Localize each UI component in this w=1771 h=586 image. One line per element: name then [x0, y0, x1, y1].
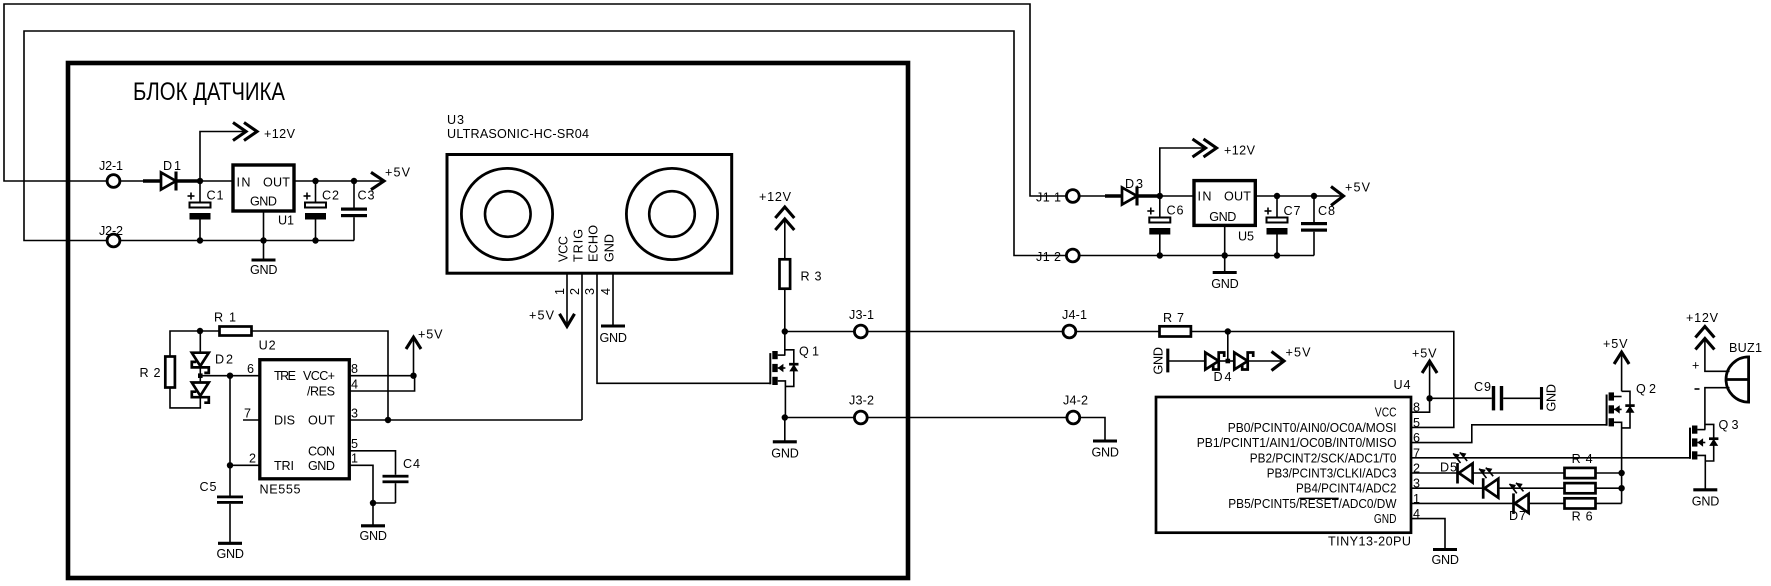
- node junction C1 bottom: [197, 237, 203, 243]
- node junction C2 bottom: [312, 237, 318, 243]
- diode D4 dual schottky: [1205, 353, 1253, 385]
- svg-text:4: 4: [351, 378, 358, 392]
- wire U1 GND pin: [263, 211, 265, 260]
- transducer right outer: [626, 168, 717, 259]
- wire PB3 to D5: [1411, 472, 1458, 474]
- node junction TRE: [227, 373, 233, 379]
- wire J3-2 to J4-2: [868, 417, 1067, 419]
- resistor R3: [780, 259, 822, 288]
- svg-text:J3-2: J3-2: [849, 394, 874, 408]
- power flag +12V left: [233, 123, 296, 142]
- ground under U3 pin4: [600, 326, 628, 345]
- ground under Q3: [1692, 490, 1720, 509]
- svg-text:7: 7: [244, 407, 251, 421]
- led D6: [1479, 468, 1498, 499]
- wire to J3-1: [785, 331, 854, 333]
- wire node to D4 mid: [1227, 332, 1229, 362]
- ground under U5: [1211, 273, 1239, 292]
- power arrow +5V 555: [406, 327, 443, 375]
- wire pin4 stub: [349, 376, 414, 391]
- svg-text:C2: C2: [322, 189, 339, 203]
- wire D7 to R6: [1529, 502, 1565, 504]
- transducer left inner: [485, 191, 531, 237]
- resistor R7: [1160, 311, 1191, 337]
- ground under U1: [250, 260, 278, 277]
- svg-text:GND: GND: [250, 195, 277, 209]
- ground under J4-2: [1092, 441, 1120, 460]
- svg-text:IN: IN: [237, 175, 251, 189]
- ground right of C9: [1542, 384, 1559, 412]
- svg-text:GND: GND: [360, 529, 388, 543]
- svg-text:VCC: VCC: [1375, 406, 1397, 420]
- svg-text:C4: C4: [403, 457, 420, 471]
- wire U3 pin3 ECHO: [597, 273, 770, 383]
- connector J1-2: [1066, 249, 1079, 262]
- resistor R6: [1565, 498, 1596, 523]
- svg-text:+5V: +5V: [418, 327, 443, 341]
- transistor Q1: [770, 345, 819, 418]
- wire U5 OUT row: [1255, 195, 1341, 197]
- svg-text:U5: U5: [1238, 230, 1254, 244]
- wire D4 to +5V: [1248, 360, 1282, 362]
- wire +12V riser: [200, 132, 246, 182]
- connector J3-1: [854, 325, 867, 338]
- wire buzzer minus to Q3 drain: [1705, 388, 1730, 430]
- svg-text:J4-2: J4-2: [1063, 394, 1088, 408]
- svg-text:C7: C7: [1284, 204, 1301, 218]
- svg-text:GND: GND: [1209, 210, 1236, 224]
- svg-text:6: 6: [247, 362, 254, 376]
- svg-text:OUT: OUT: [263, 175, 290, 189]
- svg-text:+12V: +12V: [759, 190, 792, 204]
- power arrow +5V at Q2: [1603, 337, 1629, 391]
- svg-text:C1: C1: [207, 189, 224, 203]
- node junction C8 top: [1311, 193, 1317, 199]
- svg-text:VCC+: VCC+: [303, 369, 335, 383]
- svg-text:1: 1: [553, 288, 567, 295]
- svg-text:GND: GND: [308, 459, 335, 473]
- svg-text:CON: CON: [308, 445, 335, 459]
- svg-text:3: 3: [351, 407, 358, 421]
- node junction J3-1: [782, 328, 788, 334]
- capacitor C6: [1147, 196, 1183, 256]
- mcu U4 TINY13-20PU body: [1156, 378, 1411, 549]
- wire D6 to R5: [1498, 487, 1564, 489]
- node junction U5 GND: [1222, 252, 1228, 258]
- wire D1 to U1 IN: [200, 180, 233, 182]
- svg-text:C5: C5: [200, 480, 217, 494]
- capacitor C2: [304, 181, 340, 241]
- wire node to C9: [1430, 397, 1492, 399]
- connector J2-1: [107, 175, 120, 188]
- diode D3: [1105, 177, 1160, 206]
- connector J3-2: [854, 411, 867, 424]
- capacitor C7: [1265, 196, 1301, 256]
- buzzer BUZ1: [1692, 341, 1762, 402]
- svg-text:PB1/PCINT1/AIN1/OC0B/INT0/MISO: PB1/PCINT1/AIN1/OC0B/INT0/MISO: [1197, 436, 1397, 450]
- op-amp U2 NE555 body: [259, 339, 350, 497]
- capacitor C1: [188, 181, 224, 241]
- svg-text:+12V: +12V: [264, 127, 296, 141]
- svg-text:+5V: +5V: [385, 166, 411, 180]
- node junction OUT: [385, 417, 391, 423]
- capacitor C8: [1301, 196, 1335, 256]
- wire D3 to U5 IN: [1160, 195, 1194, 197]
- led D7: [1509, 483, 1529, 523]
- node junction +5V 555: [410, 373, 416, 379]
- node junction C7 bottom: [1274, 252, 1280, 258]
- node junction GND/C4: [370, 500, 376, 506]
- wire +12V to buzzer plus: [1705, 340, 1730, 372]
- svg-text:GND: GND: [250, 263, 278, 277]
- wire pin1 GND: [349, 465, 373, 526]
- node junction D3 out: [1157, 193, 1163, 199]
- wire D5 to R4: [1473, 472, 1565, 474]
- ground under C5: [217, 543, 245, 561]
- power arrow +5V at D4: [1272, 346, 1312, 371]
- svg-text:NE555: NE555: [260, 482, 301, 496]
- wire R1 left to node: [200, 330, 220, 332]
- wire R7 to PB0 riser: [1191, 332, 1454, 428]
- svg-text:C8: C8: [1318, 204, 1335, 218]
- svg-text:ULTRASONIC-HC-SR04: ULTRASONIC-HC-SR04: [447, 127, 589, 141]
- node junction TRI: [227, 462, 233, 468]
- wire pin2 stub: [230, 464, 260, 466]
- wire pin7 stub: [243, 419, 260, 421]
- sensor block frame: [68, 63, 908, 578]
- connector J4-2: [1067, 411, 1080, 424]
- wire R4 to Q2 source rail: [1596, 472, 1622, 474]
- svg-text:GND: GND: [1152, 347, 1166, 375]
- svg-text:D3: D3: [1125, 177, 1143, 191]
- wire J4-2 to ground: [1080, 418, 1105, 442]
- wire R6 to rail: [1596, 502, 1622, 504]
- svg-text:TRI: TRI: [274, 459, 294, 473]
- svg-text:OUT: OUT: [308, 414, 335, 428]
- svg-text:PB0/PCINT0/AIN0/OC0A/MOSI: PB0/PCINT0/AIN0/OC0A/MOSI: [1228, 421, 1397, 435]
- svg-text:C9: C9: [1474, 380, 1491, 394]
- svg-text:U4: U4: [1394, 378, 1411, 392]
- svg-text:U2: U2: [259, 339, 276, 353]
- wire R2 bottom to D2 bottom: [170, 388, 200, 408]
- wire PB1 to Q2 gate: [1411, 425, 1607, 443]
- ground under Q1: [771, 442, 799, 461]
- connector J1-1: [1066, 190, 1079, 203]
- wire J4-1 to R7: [1077, 331, 1160, 333]
- svg-text:TRIG: TRIG: [572, 229, 586, 262]
- wire VCC pin to +5V node: [1411, 398, 1430, 412]
- svg-text:ECHO: ECHO: [587, 225, 601, 262]
- svg-text:U3: U3: [447, 113, 464, 127]
- svg-text:+5V: +5V: [529, 309, 555, 323]
- svg-text:5: 5: [1413, 416, 1420, 430]
- svg-text:+5V: +5V: [1286, 346, 1312, 360]
- wire GND to D4: [1168, 360, 1206, 362]
- svg-text:VCC: VCC: [557, 236, 571, 262]
- svg-text:БЛОК ДАТЧИКА: БЛОК ДАТЧИКА: [133, 78, 285, 106]
- wire U3 pin4 GND: [612, 273, 614, 326]
- wire pin8 stub: [349, 375, 413, 377]
- wire J3-1 to J4-1: [868, 331, 1063, 333]
- wire D2 mid to pin6: [200, 375, 259, 377]
- wire U3 pin1 VCC: [566, 273, 568, 325]
- svg-text:BUZ1: BUZ1: [1729, 341, 1762, 355]
- svg-text:4: 4: [599, 288, 613, 295]
- node junction U1 GND: [260, 237, 266, 243]
- svg-text:3: 3: [583, 288, 597, 295]
- regulator U5: [1194, 181, 1255, 244]
- node junction C7 top: [1274, 193, 1280, 199]
- svg-text:J3-1: J3-1: [849, 308, 874, 322]
- svg-text:+5V: +5V: [1345, 181, 1371, 195]
- led D5: [1440, 452, 1473, 483]
- wire pin3 OUT row: [349, 419, 582, 421]
- power arrow +5V at U4: [1412, 347, 1437, 399]
- svg-text:+12V: +12V: [1686, 311, 1719, 325]
- ground under U4: [1432, 550, 1460, 568]
- resistor R1: [214, 311, 252, 336]
- node junction R7/D4: [1225, 328, 1231, 334]
- power arrow +5V down at U3: [529, 309, 575, 327]
- power arrow +5V right: [1331, 181, 1371, 206]
- svg-text:+5V: +5V: [1412, 347, 1437, 361]
- connector J4-1: [1063, 325, 1076, 338]
- transistor Q2: [1607, 382, 1656, 503]
- svg-text:TRE: TRE: [274, 369, 296, 383]
- wire bottom ground row: [121, 240, 354, 242]
- power flag +12V above R3: [759, 190, 794, 230]
- svg-text:GND: GND: [1545, 384, 1559, 412]
- wire R3 to Q1 drain: [784, 289, 786, 355]
- wire R5 to rail: [1596, 487, 1622, 489]
- node junction VCC/+5V/C9: [1426, 395, 1432, 401]
- wire bottom row right: [1079, 255, 1314, 257]
- node junction at D1 out: [197, 178, 203, 184]
- wire harness net J2-2 to J1-2: [24, 31, 1066, 256]
- capacitor C3: [341, 181, 375, 241]
- svg-text:GND: GND: [1432, 553, 1460, 567]
- capacitor C9: [1474, 380, 1542, 410]
- svg-text:+12V: +12V: [1224, 144, 1256, 158]
- resistor R5: [1565, 483, 1596, 493]
- svg-text:J1 1: J1 1: [1036, 191, 1061, 205]
- power flag +12V right: [1193, 139, 1256, 158]
- capacitor C4: [373, 457, 420, 503]
- svg-text:1: 1: [351, 452, 358, 466]
- wire to J3-2: [785, 417, 854, 419]
- wire node to R2: [170, 331, 200, 357]
- wire PB4 to D6: [1411, 487, 1483, 489]
- power flag +12V at buzzer: [1686, 311, 1719, 350]
- svg-text:+5V: +5V: [1603, 337, 1628, 351]
- svg-text:D5: D5: [1440, 461, 1457, 475]
- wire +12V riser right: [1160, 148, 1206, 196]
- transistor Q3: [1690, 418, 1739, 490]
- wire GND pin to ground: [1411, 519, 1445, 550]
- svg-text:GND: GND: [1092, 446, 1120, 460]
- node junction C3 top: [351, 178, 357, 184]
- wire PB5 to D7: [1411, 502, 1514, 504]
- svg-text:J2-1: J2-1: [99, 159, 123, 173]
- svg-text:8: 8: [351, 362, 358, 376]
- svg-text:GND: GND: [1211, 277, 1239, 291]
- wire Q1 source to ground: [784, 418, 786, 442]
- transducer right inner: [649, 191, 695, 237]
- svg-text:PB5/PCINT5/RESET/ADC0/DW: PB5/PCINT5/RESET/ADC0/DW: [1228, 497, 1396, 511]
- svg-text:GND: GND: [1692, 494, 1720, 508]
- svg-text:PB4/PCINT4/ADC2: PB4/PCINT4/ADC2: [1296, 482, 1397, 496]
- wire U3 pin2 TRIG: [581, 273, 583, 420]
- resistor R2: [140, 357, 175, 388]
- wire harness net J2-1 to J1-1: [4, 4, 1066, 196]
- svg-text:GND: GND: [217, 547, 245, 561]
- wire pin5 CON to C4: [349, 451, 395, 475]
- capacitor C5: [200, 465, 244, 543]
- wire TRE to TRI riser: [229, 376, 231, 466]
- resistor R4: [1565, 452, 1596, 478]
- svg-text:+: +: [1692, 359, 1699, 373]
- svg-text:D1: D1: [163, 159, 181, 173]
- diode D1: [143, 159, 200, 191]
- svg-text:GND: GND: [771, 446, 799, 460]
- node junction C6 bottom: [1157, 252, 1163, 258]
- svg-text:PB3/PCINT3/CLKI/ADC3: PB3/PCINT3/CLKI/ADC3: [1267, 467, 1397, 481]
- svg-text:J4-1: J4-1: [1062, 308, 1087, 322]
- node junction J3-2: [782, 414, 788, 420]
- svg-text:2: 2: [568, 288, 582, 295]
- svg-text:DIS: DIS: [274, 414, 295, 428]
- svg-text:J2-2: J2-2: [99, 224, 123, 238]
- svg-text:IN: IN: [1198, 190, 1212, 204]
- svg-text:TINY13-20PU: TINY13-20PU: [1328, 535, 1411, 549]
- wire U5 GND pin: [1224, 225, 1226, 272]
- ground under U2: [360, 526, 388, 543]
- node junction R5 rail: [1618, 485, 1624, 491]
- wire +12V to R3: [784, 220, 786, 259]
- wire J1-1 to D3: [1080, 195, 1106, 197]
- svg-text:D7: D7: [1509, 509, 1526, 523]
- ground left of D4: [1152, 347, 1168, 375]
- svg-text:GND: GND: [603, 234, 617, 262]
- transducer left outer: [461, 168, 552, 259]
- connector J2-2: [107, 234, 120, 247]
- svg-text:GND: GND: [1374, 512, 1397, 526]
- svg-text:PB2/PCINT2/SCK/ADC1/T0: PB2/PCINT2/SCK/ADC1/T0: [1250, 451, 1397, 465]
- svg-text:J1 2: J1 2: [1036, 250, 1061, 264]
- diode D2 dual schottky: [192, 331, 233, 403]
- svg-text:OUT: OUT: [1224, 190, 1251, 204]
- wire U1 OUT row: [294, 180, 382, 182]
- svg-text:D4: D4: [1214, 370, 1232, 384]
- wire J2-1 to D1: [121, 180, 144, 182]
- svg-text:U1: U1: [278, 214, 294, 228]
- svg-text:/RES: /RES: [307, 385, 335, 399]
- power arrow +5V left: [371, 166, 411, 190]
- module U3 ULTRASONIC-HC-SR04: [447, 113, 732, 273]
- node junction R1/R2/D2: [197, 328, 203, 334]
- svg-text:C6: C6: [1167, 204, 1184, 218]
- wire PB2 to Q3 gate: [1411, 457, 1690, 459]
- svg-text:5: 5: [351, 437, 358, 451]
- node junction C2 top: [312, 178, 318, 184]
- svg-text:2: 2: [249, 452, 256, 466]
- svg-text:D2: D2: [215, 353, 233, 367]
- wire R1 right to OUT: [252, 331, 389, 420]
- node junction R4 rail: [1618, 470, 1624, 476]
- svg-text:C3: C3: [358, 189, 375, 203]
- svg-text:GND: GND: [600, 331, 628, 345]
- regulator U1: [233, 165, 294, 228]
